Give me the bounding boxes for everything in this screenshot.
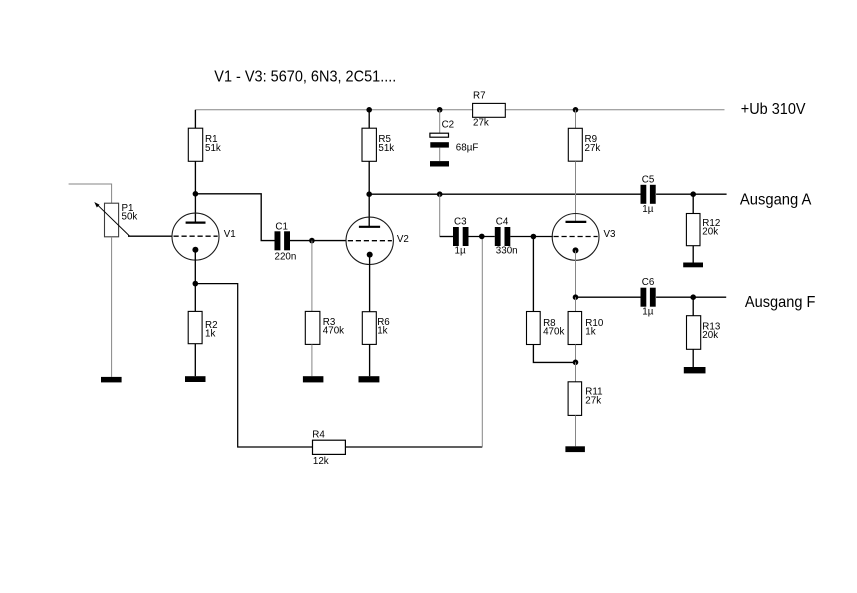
wire Ausgang A line (right of C5) [656,193,727,195]
svg-text:1µ: 1µ [642,307,653,318]
svg-text:51k: 51k [378,143,394,154]
ground (R6) [359,376,380,382]
resistor R6 [362,312,376,345]
svg-text:20k: 20k [702,227,718,238]
ground (C2) [430,161,449,166]
ground (P1) [101,377,122,383]
wire C3 to C4 [469,236,495,238]
triode V1 [172,213,219,260]
wire R1 to V1 anode [194,161,196,222]
node Ausgang A / R12 [690,191,696,197]
resistor R7 [473,103,506,117]
triode V2 [346,217,393,264]
svg-text:20k: 20k [702,330,718,341]
node rail R5 [366,107,372,113]
wire feedback riser to C3/C4 node [481,236,483,447]
wire V2 cathode to R6 [369,255,371,312]
node rail C2 [437,107,443,113]
svg-text:220n: 220n [275,252,297,263]
resistor R1 [188,128,202,161]
resistor R9 [568,128,582,161]
capacitor C1 [275,231,291,250]
wire node to C3 vertical [439,194,441,236]
wire R11 to ground [575,415,577,446]
resistor R8 [527,312,541,345]
capacitor C4 [495,227,511,246]
svg-text:V1 - V3: 5670, 6N3, 2C51....: V1 - V3: 5670, 6N3, 2C51.... [214,69,396,86]
ground (R12) [683,263,703,268]
node V1 anode [193,191,199,197]
node V2 anode [366,191,372,197]
net +Ub rail [195,109,724,111]
svg-text:V1: V1 [224,229,236,240]
ground (R2) [185,376,206,382]
svg-text:V3: V3 [604,229,617,240]
wire Ausgang F line (right of C6) [656,296,726,298]
node rail R9 [573,107,579,113]
node C1/V2 grid [309,238,315,244]
wire R12 to ground [692,246,694,263]
svg-text:27k: 27k [585,143,601,154]
svg-text:C3: C3 [454,216,467,227]
wire C4 to V3 grid [510,236,553,238]
svg-text:470k: 470k [543,327,564,338]
svg-text:C4: C4 [496,216,509,227]
wire P1 bottom to ground [111,237,113,377]
svg-text:12k: 12k [313,456,329,467]
wire node to R8 [532,237,534,312]
resistor R3 [305,311,320,344]
wire Ausgang A line [369,193,640,195]
svg-text:1k: 1k [377,326,387,337]
svg-text:C1: C1 [275,222,288,233]
svg-text:R4: R4 [312,429,325,440]
wire R5 to V2 anode [368,161,370,227]
node Ausgang F / R13 [690,294,696,300]
wire R6 to ground [369,344,371,376]
svg-text:330n: 330n [496,245,518,256]
resistor R12 [686,214,700,246]
node V3 grid / R8 [531,234,537,240]
resistor R5 [362,128,376,161]
wire node to R3 [311,241,313,312]
wire R10 to node [575,345,577,363]
wire rail to R9 [575,110,577,129]
svg-text:1µ: 1µ [455,245,466,256]
node V1 cathode [193,281,199,287]
wire R3 to ground [311,344,313,376]
capacitor C3 [453,227,469,246]
resistor R11 [568,382,582,416]
svg-text:V2: V2 [397,234,409,245]
wire rail to R1 [194,110,196,128]
svg-text:Ausgang A: Ausgang A [740,191,812,208]
wire rail to R5 [368,110,370,128]
resistor R10 [568,312,582,345]
ground (R13) [684,367,706,373]
wire R9 to V3 anode [575,161,577,222]
resistor R4 [313,440,346,454]
wire R8 to R10/R11 node [533,345,575,363]
svg-text:470k: 470k [323,326,344,337]
capacitor C6 [641,288,656,307]
node R8/R10/R11 [573,360,579,366]
svg-text:R7: R7 [473,91,486,102]
resistor R13 [687,316,701,350]
wire R4 to C3/C4 node [345,446,482,448]
wire node to R13 [692,297,694,316]
svg-text:1k: 1k [205,329,215,340]
svg-text:27k: 27k [585,395,601,406]
wire V1 cathode to R2 [194,250,196,312]
capacitor C5 [641,185,656,204]
svg-text:C2: C2 [442,120,455,131]
wire Ausgang F line [576,296,641,298]
svg-text:68µF: 68µF [456,143,479,154]
node C3/C4 [479,234,485,240]
wire node to R11 [575,362,577,382]
wire R2 to ground [194,344,196,377]
wire V1 cathode to R4 loop [195,284,312,447]
capacitor C2 [430,110,449,161]
wire input to P1 [69,184,112,203]
triode V3 [552,214,599,261]
ground (R3) [303,376,324,382]
svg-text:C6: C6 [642,277,655,288]
svg-text:51k: 51k [205,143,221,154]
wire node to R12 [692,194,694,213]
wire P1 wiper to V1 grid [128,235,172,237]
svg-text:C5: C5 [642,174,655,185]
resistor R2 [188,311,202,343]
wire node to R10 [575,297,577,311]
wire into C3 [440,236,453,238]
svg-text:Ausgang F: Ausgang F [745,294,816,311]
svg-text:27k: 27k [473,118,489,129]
wire C1 to V2 grid [290,240,346,242]
potentiometer P1 [94,202,129,237]
svg-text:+Ub 310V: +Ub 310V [741,101,806,118]
ground (R11) [565,446,585,452]
svg-text:50k: 50k [122,212,138,223]
svg-text:1µ: 1µ [642,204,653,215]
node to C3 [437,191,443,197]
node V3 cathode [573,294,579,300]
svg-text:1k: 1k [585,327,595,338]
wire V3 cathode down [575,250,577,297]
wire R13 to ground [692,349,694,367]
wire V1 anode to C1 [195,194,274,241]
